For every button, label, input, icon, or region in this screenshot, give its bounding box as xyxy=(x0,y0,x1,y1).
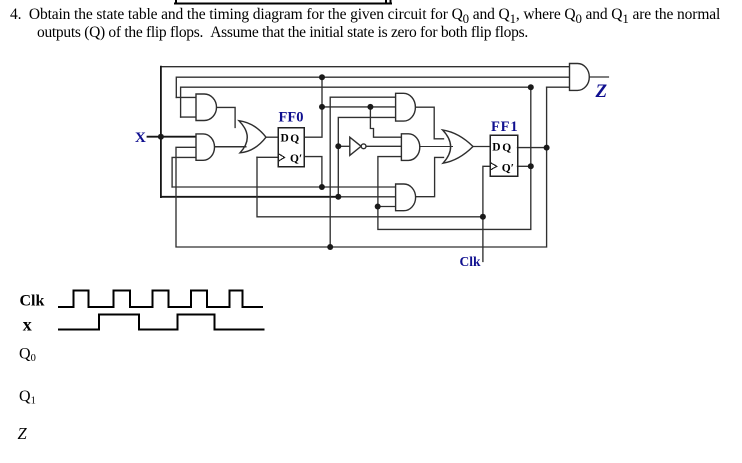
svg-text:Q′: Q′ xyxy=(290,153,302,165)
svg-text:D: D xyxy=(492,142,500,154)
svg-text:FF0: FF0 xyxy=(279,110,304,126)
svg-text:Clk: Clk xyxy=(460,254,482,269)
svg-text:Z: Z xyxy=(595,81,608,102)
svg-text:Q′: Q′ xyxy=(502,163,514,175)
svg-text:Z: Z xyxy=(18,424,28,443)
svg-text:Q: Q xyxy=(502,142,511,154)
svg-text:Clk: Clk xyxy=(20,293,45,310)
svg-text:FF1: FF1 xyxy=(491,119,518,135)
svg-text:D: D xyxy=(281,133,289,145)
svg-text:x: x xyxy=(23,314,32,334)
svg-text:Q1: Q1 xyxy=(19,388,36,407)
svg-text:X: X xyxy=(135,130,146,146)
svg-text:Q0: Q0 xyxy=(19,346,36,365)
svg-text:Q: Q xyxy=(290,133,299,145)
